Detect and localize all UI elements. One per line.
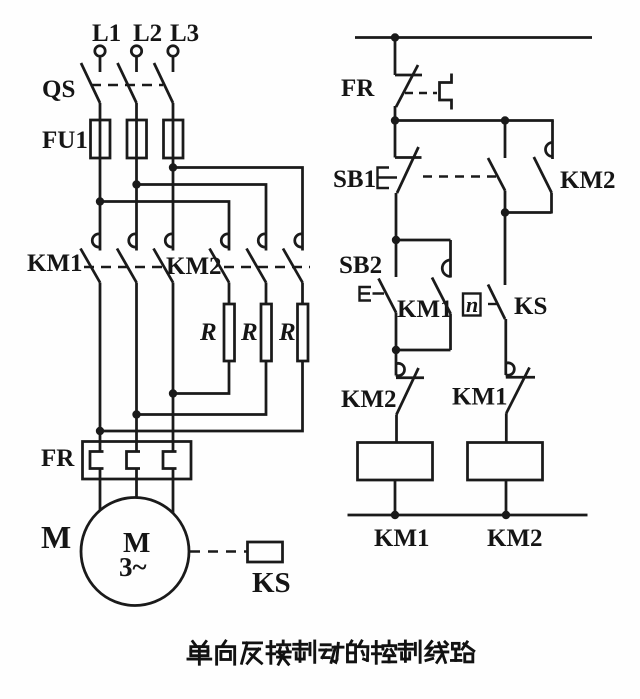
terminal L3: [168, 46, 178, 56]
terminal L1: [95, 46, 105, 56]
svg-text:KM1: KM1: [452, 384, 508, 411]
thermal relay FR heater 1: [90, 452, 104, 469]
svg-text:L2: L2: [133, 20, 162, 47]
fuse FU1-3: [164, 120, 184, 158]
junction R3-L1: [96, 427, 104, 435]
wire coil KM1 to rail: [394, 480, 397, 515]
junction R1-L3: [169, 389, 177, 397]
junction SB2 top: [392, 236, 400, 244]
speed relay KS box: [248, 542, 283, 562]
svg-text:SB1: SB1: [333, 166, 376, 193]
wire R3 return to L1: [100, 361, 303, 431]
wire L3 QS to fuse: [172, 103, 175, 121]
wire branch L2 to KM2 pole2: [137, 185, 267, 251]
fuse FU1-2: [127, 120, 147, 158]
wire FR to motor w: [172, 469, 175, 514]
caption char 控: [372, 641, 395, 663]
thermal relay FR heater 3: [163, 452, 177, 469]
button SB2 actuator E: [360, 287, 385, 301]
svg-text:L1: L1: [92, 20, 121, 47]
junction parallel bottom: [501, 208, 509, 216]
junction R2-L2: [132, 410, 140, 418]
wire KM1 pole2 down: [135, 283, 138, 452]
wire L3 fuse to KM1 pole3: [172, 158, 175, 251]
junction on L3: [169, 163, 177, 171]
wire R1 return to L3: [173, 361, 229, 394]
wire R2 return to L2: [137, 361, 267, 415]
wire KM2 pole3 to R3: [301, 283, 304, 305]
thermal contact FR trip link dashed: [405, 92, 437, 94]
terminal L2: [131, 46, 141, 56]
junction bottom rail KM1: [391, 511, 399, 519]
caption char 的: [347, 641, 367, 662]
switch QS pole 2 blade: [118, 63, 137, 103]
svg-text:KM1: KM1: [27, 250, 83, 277]
button SB1 actuator E: [378, 168, 398, 189]
thermal relay FR heater 2: [127, 452, 141, 469]
contactor KM2 linkage dashed: [224, 266, 310, 268]
resistor R2: [261, 304, 272, 361]
svg-text:FR: FR: [41, 445, 75, 472]
caption char 反: [242, 643, 262, 663]
wire parallel bottom: [505, 211, 552, 214]
junction top rail: [391, 33, 399, 41]
svg-text:n: n: [466, 292, 478, 317]
button SB2 NO contact: [379, 240, 397, 350]
wire KS branch upper: [504, 213, 507, 286]
caption char 线: [426, 641, 448, 662]
wire SB2 top branch: [396, 239, 451, 242]
wire L2 stub: [135, 57, 138, 73]
interlock KM2 NC contact: [396, 350, 424, 443]
caption char 动: [320, 643, 343, 662]
fuse FU1-1: [91, 120, 111, 158]
wire coil KM2 to rail: [505, 480, 508, 515]
caption char 单: [188, 641, 211, 664]
wire FR to motor v: [135, 469, 138, 499]
svg-text:L3: L3: [170, 20, 199, 47]
contactor KM1 pole 2: [117, 234, 137, 283]
caption char 接: [267, 641, 290, 664]
wire rail 2: [395, 119, 554, 122]
resistor R1: [224, 304, 235, 361]
wire KM2 pole2 to R2: [265, 283, 268, 305]
caption char 制1: [293, 641, 314, 662]
wire SB2 bottom branch: [396, 349, 451, 352]
wire top rail: [355, 36, 592, 39]
wire branch L3 to KM2 pole3: [173, 168, 303, 251]
svg-text:KM2: KM2: [487, 525, 543, 552]
svg-text:SB2: SB2: [339, 252, 382, 279]
coil KM2: [468, 443, 543, 481]
wire L2 fuse to KM1 pole2: [135, 158, 138, 251]
thermal contact FR trip element: [440, 74, 452, 110]
speed contact KS blade: [488, 285, 505, 320]
wire KM1 pole3 down: [172, 283, 175, 452]
contactor KM2 pole 1: [210, 234, 230, 283]
junction rail2 left: [391, 116, 399, 124]
coil KM1: [358, 443, 433, 481]
svg-text:KS: KS: [514, 293, 547, 320]
svg-text:KM1: KM1: [374, 525, 430, 552]
contact KM2 self-hold NO: [534, 121, 553, 214]
svg-text:M: M: [41, 519, 71, 555]
switch QS linkage dashed: [91, 84, 163, 86]
contactor KM2 pole 2: [247, 234, 267, 283]
wire L3 stub: [172, 57, 175, 73]
junction SB2 bottom: [392, 346, 400, 354]
caption char 向: [217, 641, 235, 664]
svg-text:FU1: FU1: [42, 127, 88, 154]
wire L1 fuse to KM1 pole1: [99, 158, 102, 251]
wire KM1 pole1 down: [99, 283, 102, 452]
contact KM1 self-hold NO: [432, 240, 451, 350]
button SB1 NO contact: [488, 121, 505, 213]
svg-text:R: R: [240, 319, 258, 346]
switch QS pole 3 blade: [154, 63, 173, 103]
wire FR to motor u: [99, 469, 102, 512]
thermal contact FR NC: [395, 38, 422, 122]
motor M circle: [81, 498, 189, 606]
junction bottom rail KM2: [502, 511, 510, 519]
speed contact n box: [463, 294, 481, 316]
svg-text:QS: QS: [42, 76, 75, 103]
svg-text:KS: KS: [252, 567, 291, 599]
svg-text:FR: FR: [341, 75, 375, 102]
svg-text:3~: 3~: [119, 552, 147, 582]
button SB1 NC contact: [395, 121, 422, 241]
contactor KM2 pole 3: [283, 234, 303, 283]
contactor KM1 pole 1: [81, 234, 101, 283]
wire branch L1 to KM2 pole1: [100, 202, 229, 251]
switch QS pole 1 blade: [81, 63, 100, 103]
junction on L1: [96, 197, 104, 205]
speed sensor linkage dashed: [190, 550, 247, 552]
wire L1 QS to fuse: [99, 103, 102, 121]
wire L1 stub: [99, 57, 102, 73]
contactor KM1 linkage dashed: [84, 266, 163, 268]
junction rail2 right: [501, 116, 509, 124]
wire bottom rail: [348, 514, 588, 517]
svg-text:KM2: KM2: [341, 386, 397, 413]
svg-text:KM2: KM2: [560, 167, 616, 194]
button SB1 linkage dashed: [423, 175, 496, 177]
contactor KM1 pole 3: [154, 234, 174, 283]
wire L2 QS to fuse: [135, 103, 138, 121]
caption char 路: [451, 642, 473, 662]
svg-text:R: R: [278, 319, 296, 346]
svg-text:R: R: [199, 319, 217, 346]
caption char 制2: [399, 641, 420, 662]
speed contact tick: [488, 303, 498, 305]
interlock KM1 NC contact: [506, 319, 535, 443]
junction on L2: [132, 180, 140, 188]
thermal relay FR box: [83, 442, 192, 480]
resistor R3: [298, 304, 309, 361]
caption 单向反接制动的控制线路 (hand-drawn strokes): [188, 641, 474, 664]
wire KM2 pole1 to R1: [228, 283, 231, 305]
